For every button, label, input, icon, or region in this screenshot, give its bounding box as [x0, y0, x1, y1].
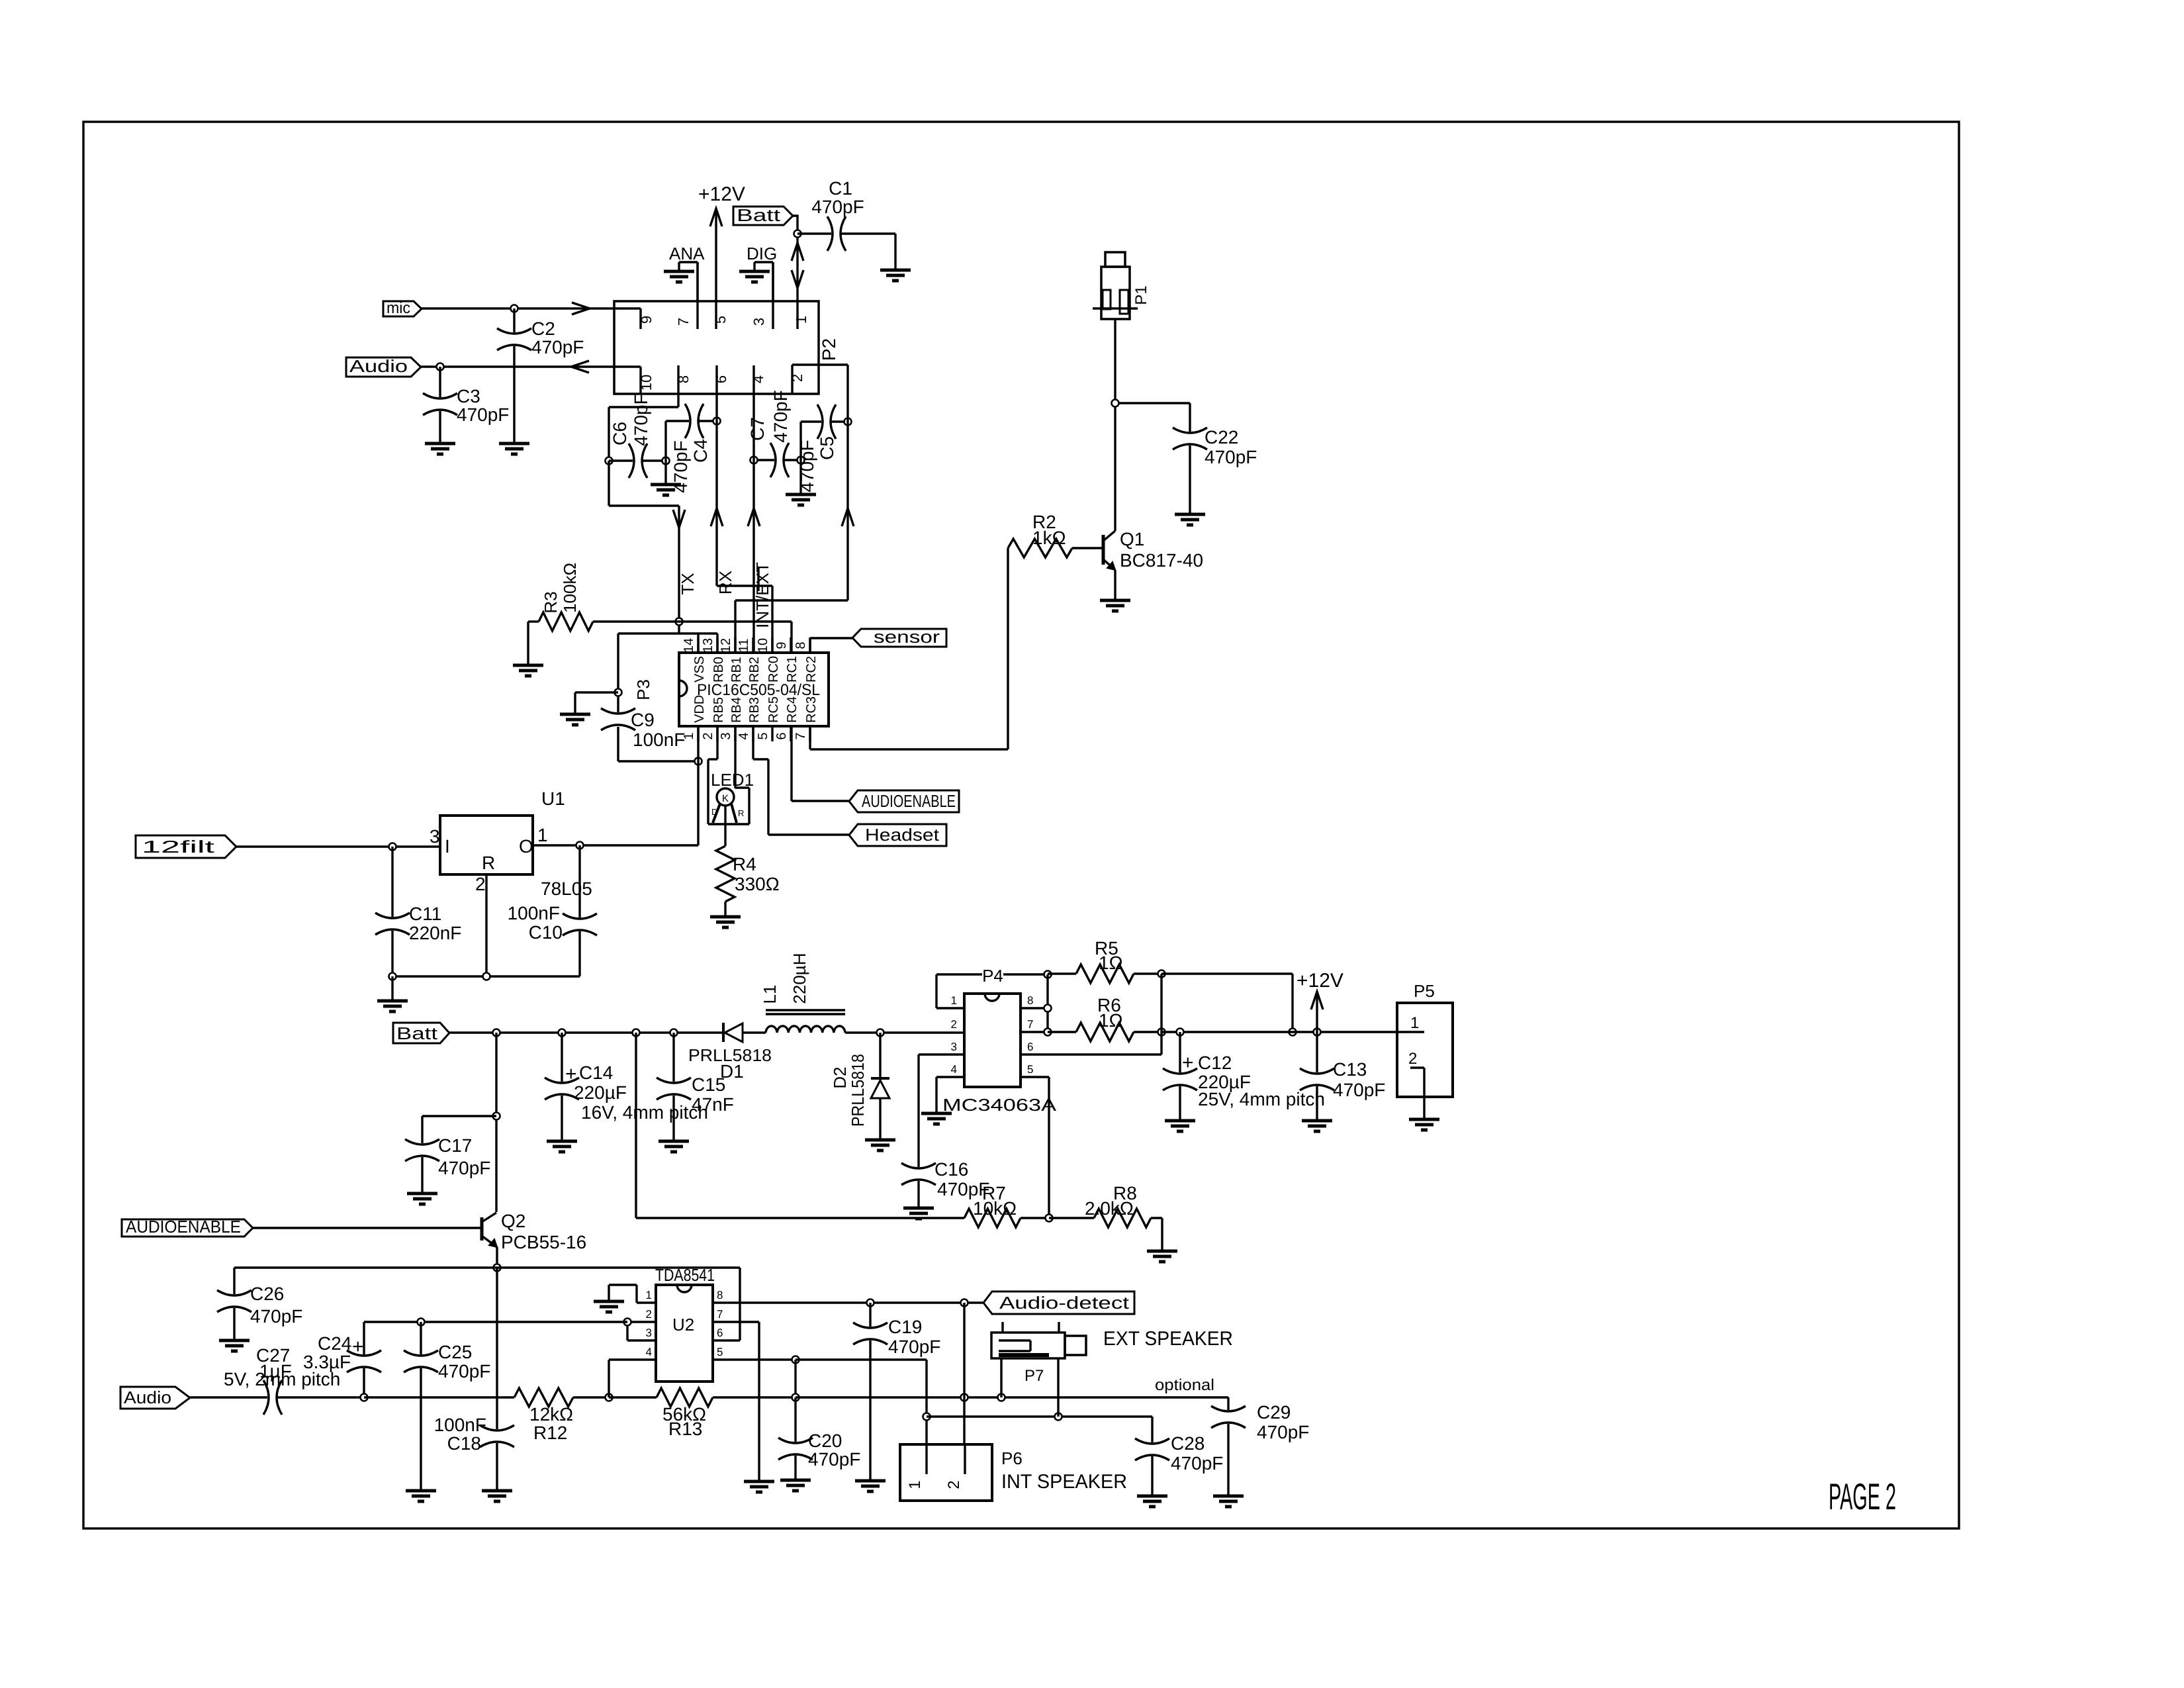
- node rail/C12 junction: [1177, 1029, 1184, 1036]
- svg-text:14: 14: [682, 638, 696, 653]
- node rail/C15 junction: [670, 1029, 678, 1037]
- svg-text:C5: C5: [817, 436, 837, 460]
- node C6/C4 junction: [662, 457, 670, 465]
- LED LED1: [708, 726, 754, 824]
- wire C11 to ground: [391, 976, 393, 1001]
- capacitor C13 470pF: [1300, 1032, 1385, 1121]
- wire U2 pins 2/3 strap: [626, 1322, 628, 1340]
- svg-text:1: 1: [1410, 1014, 1419, 1032]
- svg-text:+12V: +12V: [698, 183, 745, 205]
- node P1/C22 junction: [1112, 400, 1119, 407]
- svg-text:C22: C22: [1205, 427, 1238, 447]
- diode D1 PRLL5818: [688, 1023, 772, 1082]
- svg-text:RX: RX: [715, 571, 735, 594]
- P2 pin 2: [789, 365, 848, 394]
- wire P2 pin 8 to C6: [609, 394, 678, 461]
- page title PAGE 2: [1829, 1476, 1896, 1517]
- wire MC pin3 to C16: [917, 1055, 919, 1167]
- svg-text:3: 3: [646, 1327, 652, 1339]
- ground (C5/C7): [786, 494, 816, 505]
- wire R5 to +12V rail: [1161, 974, 1293, 1032]
- svg-text:AUDIOENABLE: AUDIOENABLE: [862, 791, 956, 811]
- wire R8 to ground: [1161, 1218, 1163, 1251]
- P2 pin 3: [751, 262, 773, 329]
- svg-text:100kΩ: 100kΩ: [560, 563, 580, 613]
- resistor R3 100kΩ: [528, 563, 593, 631]
- optional wire: [796, 1376, 1228, 1397]
- svg-text:13: 13: [701, 638, 715, 653]
- TX line to PIC pin 13: [673, 506, 698, 633]
- svg-text:3: 3: [951, 1041, 957, 1053]
- svg-text:100nF: 100nF: [633, 729, 685, 750]
- capacitor C18 100nF: [434, 1268, 514, 1491]
- svg-text:TX: TX: [678, 573, 698, 594]
- ground (C22): [1175, 514, 1205, 525]
- wire sensor to PIC pin 8: [810, 638, 852, 653]
- IC PIC16C505-04/SL: [679, 637, 829, 741]
- ground (C1): [880, 270, 911, 281]
- svg-text:C2: C2: [531, 318, 555, 339]
- svg-text:8: 8: [675, 375, 692, 383]
- ground (R4): [710, 917, 741, 927]
- capacitor C10 100nF: [508, 845, 597, 976]
- IC U1 78L05: [430, 788, 592, 899]
- svg-text:BC817-40: BC817-40: [1120, 550, 1203, 571]
- svg-text:P6: P6: [1001, 1448, 1023, 1468]
- svg-text:1: 1: [646, 1289, 652, 1301]
- node C7/INT-EXT junction: [751, 457, 758, 464]
- net label AUDIOENABLE (Q2): [122, 1217, 253, 1237]
- svg-text:470pF: 470pF: [438, 1361, 490, 1382]
- node C4/RX junction: [713, 418, 721, 425]
- node Audio/C3 junction: [437, 363, 444, 371]
- ground (C19): [855, 1481, 886, 1491]
- svg-text:RC0: RC0: [766, 656, 781, 682]
- svg-text:TDA8541: TDA8541: [655, 1265, 715, 1285]
- svg-text:1: 1: [793, 316, 809, 324]
- svg-text:470pF: 470pF: [631, 393, 651, 445]
- svg-text:RB2: RB2: [747, 657, 762, 682]
- wire AUDIOENABLE to Q2 base: [253, 1227, 482, 1229]
- svg-text:P3: P3: [633, 679, 653, 700]
- svg-text:470pF: 470pF: [250, 1306, 302, 1327]
- svg-text:RB0: RB0: [711, 657, 726, 682]
- svg-text:RC3: RC3: [804, 696, 819, 723]
- svg-text:U2: U2: [672, 1315, 694, 1335]
- svg-text:optional: optional: [1155, 1376, 1214, 1394]
- wire U1 pin 2 rail: [389, 874, 580, 980]
- svg-text:4: 4: [646, 1346, 652, 1358]
- svg-text:C10: C10: [529, 922, 563, 943]
- capacitor C20 470pF: [778, 1397, 860, 1480]
- svg-text:470pF: 470pF: [770, 390, 791, 442]
- wire pin5 to C20: [794, 1360, 796, 1397]
- node pin8 junction: [1044, 1005, 1052, 1012]
- svg-text:D2: D2: [830, 1066, 850, 1088]
- svg-text:C26: C26: [250, 1284, 284, 1304]
- svg-text:2: 2: [475, 874, 486, 894]
- connector P3: [618, 633, 717, 761]
- svg-text:INT SPEAKER: INT SPEAKER: [1001, 1471, 1127, 1493]
- svg-text:470pF: 470pF: [808, 1449, 860, 1470]
- ground (C17): [407, 1194, 437, 1204]
- digital ground DIG: [739, 244, 777, 301]
- svg-text:sensor: sensor: [874, 627, 940, 647]
- wire amp input: [364, 1321, 627, 1323]
- wire U2 pin 5 to P6 pin 1: [796, 1360, 927, 1444]
- svg-text:25V, 4mm pitch: 25V, 4mm pitch: [1198, 1089, 1325, 1109]
- svg-text:P2: P2: [819, 338, 839, 361]
- node pin7/R6 junction: [1044, 1029, 1052, 1036]
- node U2 pin2 junction: [624, 1319, 631, 1326]
- resistor R8 2.0kΩ: [1049, 1183, 1162, 1227]
- resistor R12 12kΩ: [514, 1388, 609, 1443]
- net label Headset: [849, 824, 946, 846]
- svg-text:7: 7: [1027, 1018, 1033, 1031]
- svg-text:RB4: RB4: [729, 697, 744, 723]
- wire MC pin4 to ground: [935, 1077, 937, 1113]
- svg-text:Batt: Batt: [396, 1023, 438, 1043]
- svg-text:ANA: ANA: [669, 244, 705, 263]
- connector P2: [614, 301, 839, 394]
- wire Audio to R12: [364, 1396, 514, 1398]
- svg-text:330Ω: 330Ω: [735, 874, 780, 894]
- svg-text:P7: P7: [1024, 1367, 1044, 1385]
- svg-text:5: 5: [756, 732, 770, 739]
- node C5/pin2-line junction: [844, 418, 852, 426]
- svg-text:4: 4: [951, 1063, 957, 1076]
- svg-text:I: I: [445, 836, 450, 857]
- wire MC pin5 to R7/R8: [1048, 1077, 1050, 1218]
- svg-text:12filt: 12filt: [142, 837, 216, 857]
- svg-text:mic: mic: [387, 299, 410, 317]
- node C6 left junction: [606, 457, 613, 465]
- svg-text:10kΩ: 10kΩ: [973, 1198, 1017, 1219]
- node 12filt/C11 junction: [389, 843, 396, 851]
- power label +12V (top): [698, 183, 745, 301]
- capacitor C16 470pF: [901, 1159, 989, 1208]
- capacitor C24 3.3µF: [303, 1322, 381, 1397]
- svg-text:P4: P4: [982, 966, 1003, 986]
- transistor Q1 BC817-40: [1103, 529, 1203, 600]
- node optional/P6 pin2 junction: [961, 1394, 968, 1401]
- svg-text:P1: P1: [1132, 285, 1150, 305]
- wire rail to Q2 collector: [495, 1033, 497, 1212]
- connector P1: [1093, 252, 1150, 319]
- RX line (P2 pin 6 to PIC pin 10): [711, 394, 772, 653]
- svg-text:RB5: RB5: [711, 697, 726, 723]
- P2 pin 1: [793, 234, 809, 329]
- svg-text:RB3: RB3: [747, 697, 762, 723]
- node +12V rail junction: [1289, 1029, 1297, 1036]
- ground (Q1 emitter): [1100, 600, 1130, 611]
- svg-text:1Ω: 1Ω: [1099, 1010, 1123, 1031]
- svg-text:2: 2: [951, 1018, 957, 1031]
- svg-text:3: 3: [751, 318, 767, 326]
- node Audio-detect/P6 junction: [961, 1299, 968, 1307]
- svg-text:INT/EXT: INT/EXT: [752, 562, 772, 628]
- capacitor C19 470pF: [853, 1303, 940, 1481]
- P2 pin 6: [713, 365, 729, 394]
- ground (R8): [1147, 1251, 1177, 1262]
- svg-text:7: 7: [675, 318, 692, 326]
- resistor R6 1Ω: [1048, 995, 1161, 1041]
- connector P7 (ext speaker jack): [991, 1322, 1086, 1417]
- svg-text:6: 6: [1027, 1041, 1033, 1053]
- svg-text:1kΩ: 1kΩ: [1032, 528, 1066, 548]
- ground (C25): [406, 1491, 436, 1501]
- svg-text:C29: C29: [1257, 1402, 1291, 1423]
- svg-text:RB1: RB1: [729, 657, 744, 682]
- P2 pin 2 line to PIC pin 12: [735, 365, 854, 653]
- P2 pin 7: [675, 262, 698, 329]
- capacitor C5 470pF: [797, 404, 848, 492]
- node rail/D2 junction: [877, 1029, 884, 1037]
- node mic/C2 junction: [511, 305, 518, 312]
- svg-text:3: 3: [430, 826, 440, 847]
- node R5 right junction: [1158, 970, 1165, 978]
- svg-text:100nF: 100nF: [508, 903, 560, 923]
- net label AUDIOENABLE (PIC): [849, 790, 959, 812]
- svg-text:16V, 4mm pitch: 16V, 4mm pitch: [581, 1102, 708, 1123]
- wire P3 to ground: [575, 692, 618, 714]
- svg-text:C17: C17: [438, 1135, 472, 1156]
- ground (P5): [1409, 1119, 1439, 1130]
- node P4/R5 junction: [1044, 971, 1052, 978]
- svg-text:1: 1: [906, 1480, 924, 1489]
- P2 pin 8: [675, 365, 692, 394]
- capacitor C27 1µF: [190, 1345, 364, 1415]
- svg-text:Audio: Audio: [349, 356, 408, 376]
- svg-text:C25: C25: [438, 1342, 472, 1362]
- wire P1 to Q1 collector: [1115, 319, 1190, 531]
- capacitor C17 470pF: [405, 1116, 496, 1194]
- wire C5/C7 to ground: [799, 460, 801, 494]
- svg-text:3: 3: [719, 732, 733, 739]
- INT/EXT line (P2 pin 4 to PIC pin 11): [748, 394, 772, 653]
- svg-text:2: 2: [1408, 1050, 1417, 1068]
- svg-text:C7: C7: [747, 417, 768, 441]
- capacitor C3 470pF: [423, 367, 509, 444]
- wire mic to P2 pin 9: [422, 303, 641, 329]
- svg-text:4: 4: [750, 375, 766, 383]
- wire +12V rail to P5: [1161, 1031, 1397, 1033]
- svg-text:RC5: RC5: [766, 696, 781, 723]
- node rail/Q2 junction: [493, 1029, 500, 1037]
- svg-text:PIC16C505-04/SL: PIC16C505-04/SL: [697, 681, 820, 699]
- svg-text:+: +: [1182, 1052, 1194, 1074]
- ground (D2): [865, 1140, 895, 1150]
- ground (U2 pin 1): [594, 1301, 624, 1312]
- svg-text:2: 2: [789, 374, 805, 382]
- net label sensor: [852, 627, 946, 647]
- ground (C3): [425, 444, 455, 454]
- power label +12V (right): [1297, 970, 1343, 1032]
- wire D1 to L1: [743, 1031, 766, 1033]
- wire rail to R7/R8: [635, 1033, 637, 1218]
- connector P5: [1397, 981, 1453, 1119]
- svg-text:8: 8: [794, 641, 808, 649]
- svg-text:C9: C9: [631, 710, 655, 730]
- svg-text:11: 11: [737, 639, 751, 653]
- wire U2 pin 7 to ground: [758, 1322, 760, 1481]
- svg-text:470pF: 470pF: [1171, 1453, 1223, 1474]
- resistor R7 10kΩ: [636, 1183, 1049, 1227]
- svg-text:R13: R13: [668, 1419, 702, 1439]
- svg-text:R3: R3: [541, 591, 561, 613]
- svg-text:12kΩ: 12kΩ: [529, 1404, 573, 1425]
- svg-text:C20: C20: [808, 1430, 842, 1451]
- ground (C13): [1302, 1121, 1332, 1131]
- IC MC34063A (U?): [919, 994, 1161, 1115]
- wire R3 to PIC pin 9: [593, 622, 792, 653]
- IC U2 TDA8541: [609, 1265, 796, 1382]
- svg-text:C4: C4: [690, 439, 711, 463]
- node P3/ground junction: [615, 689, 622, 696]
- svg-text:10: 10: [638, 375, 655, 391]
- svg-text:5: 5: [712, 316, 729, 324]
- node optional/P7 junction: [998, 1394, 1005, 1401]
- svg-text:2: 2: [646, 1308, 652, 1321]
- ground (U1 block): [377, 1001, 408, 1011]
- P2 pin 9: [638, 316, 655, 324]
- net label Audio-detect: [983, 1291, 1134, 1314]
- wire VDD (PIC pin 1 to U1 out): [580, 726, 698, 845]
- wire Audio to P2 pin 10: [421, 361, 641, 394]
- svg-text:RC4: RC4: [785, 696, 799, 723]
- wire C6 to TX line: [609, 461, 679, 506]
- capacitor C25 470pF: [404, 1322, 490, 1491]
- net label 12filt: [136, 835, 236, 858]
- resistor R13 56kΩ: [609, 1388, 796, 1439]
- ground (C14): [547, 1141, 577, 1152]
- svg-text:1: 1: [951, 994, 957, 1007]
- svg-text:Batt: Batt: [737, 205, 781, 225]
- svg-text:C1: C1: [829, 178, 852, 199]
- capacitor C4 470pF: [666, 404, 717, 493]
- ground (U2 pin 7): [744, 1481, 774, 1492]
- svg-text:R12: R12: [533, 1423, 567, 1443]
- ground (C16): [903, 1208, 934, 1219]
- net label Batt (top): [733, 205, 797, 234]
- svg-text:5: 5: [1027, 1063, 1033, 1076]
- svg-text:O: O: [519, 836, 533, 857]
- wire MC pin8 strap: [1046, 974, 1048, 1032]
- inductor L1 220µH: [760, 953, 845, 1033]
- capacitor C1 470pF: [797, 178, 895, 251]
- wire to C28: [927, 1415, 1152, 1417]
- wire R5/R6 parallel strap: [1160, 974, 1162, 1055]
- svg-text:AUDIOENABLE: AUDIOENABLE: [126, 1217, 241, 1237]
- svg-text:Audio: Audio: [124, 1387, 171, 1407]
- wire Audio-detect: [740, 1301, 983, 1303]
- P2 pin 5: [712, 301, 729, 329]
- node R12/R13/pin4 junction: [606, 1394, 613, 1401]
- ground (R3): [513, 665, 543, 676]
- svg-text:4: 4: [737, 732, 751, 739]
- capacitor C12 220µF: [1163, 1032, 1325, 1121]
- svg-text:C3: C3: [457, 386, 480, 406]
- wire C4/C6 to ground: [664, 461, 666, 485]
- capacitor C2 470pF: [497, 308, 584, 444]
- svg-text:8: 8: [717, 1289, 723, 1301]
- node R6 right junction: [1158, 1029, 1165, 1036]
- resistor R4 330Ω: [716, 805, 780, 917]
- transistor Q2 PCB55-16: [482, 1211, 586, 1268]
- svg-text:220µF: 220µF: [574, 1082, 627, 1103]
- resistor R2 1kΩ: [1008, 512, 1103, 557]
- svg-text:1: 1: [537, 825, 548, 845]
- net label mic: [383, 299, 422, 317]
- svg-text:6: 6: [774, 732, 789, 739]
- capacitor C6 470pF: [609, 393, 666, 478]
- svg-text:R: R: [738, 808, 744, 818]
- svg-text:Q2: Q2: [501, 1211, 525, 1231]
- capacitor C28 470pF: [1135, 1417, 1223, 1496]
- svg-text:10: 10: [756, 638, 770, 653]
- node P3/PIC pin1 junction: [695, 758, 702, 765]
- wire PIC pin 6 to AUDIOENABLE: [792, 726, 849, 801]
- capacitor C26 470pF: [217, 1268, 302, 1340]
- node R13/C20 junction: [792, 1394, 799, 1401]
- svg-text:9: 9: [638, 316, 655, 324]
- svg-text:7: 7: [794, 732, 808, 739]
- svg-text:C11: C11: [409, 904, 441, 924]
- svg-text:DIG: DIG: [747, 244, 777, 263]
- svg-text:C12: C12: [1198, 1053, 1232, 1073]
- svg-text:R4: R4: [733, 854, 756, 874]
- P2 pin 4: [750, 365, 766, 394]
- svg-text:470pF: 470pF: [888, 1336, 940, 1357]
- svg-text:PAGE 2: PAGE 2: [1829, 1476, 1896, 1517]
- ground (C15): [659, 1141, 689, 1152]
- svg-text:C24: C24: [318, 1333, 351, 1354]
- capacitor C11 220nF: [375, 847, 461, 976]
- svg-text:Headset: Headset: [865, 825, 940, 845]
- svg-text:PRLL5818: PRLL5818: [848, 1054, 868, 1127]
- svg-text:470pF: 470pF: [1257, 1422, 1309, 1442]
- svg-text:C18: C18: [447, 1433, 481, 1454]
- svg-text:L1: L1: [760, 985, 780, 1004]
- svg-text:220nF: 220nF: [409, 923, 461, 943]
- ground (C29): [1213, 1496, 1244, 1507]
- svg-text:C19: C19: [888, 1317, 922, 1337]
- node R7/R8 junction: [1046, 1215, 1053, 1222]
- ground (C26): [219, 1340, 250, 1351]
- P2 pin 10: [638, 375, 655, 391]
- wire C1 to ground: [894, 234, 896, 270]
- svg-text:5: 5: [717, 1346, 723, 1358]
- svg-text:C28: C28: [1171, 1433, 1205, 1454]
- label EXT SPEAKER: [1103, 1328, 1233, 1350]
- svg-text:2.0kΩ: 2.0kΩ: [1085, 1198, 1134, 1219]
- svg-text:470pF: 470pF: [438, 1158, 490, 1178]
- svg-text:VDD: VDD: [692, 695, 707, 723]
- svg-text:6: 6: [717, 1327, 723, 1339]
- ground (C20): [780, 1480, 811, 1491]
- svg-text:C16: C16: [934, 1159, 968, 1180]
- bidirectional arrows (P2 pin 1): [792, 243, 803, 288]
- svg-text:R: R: [482, 853, 495, 873]
- svg-text:12: 12: [719, 638, 733, 653]
- wire 12filt to U1 in: [236, 845, 440, 847]
- svg-text:1Ω: 1Ω: [1099, 953, 1123, 973]
- analog ground ANA: [664, 244, 705, 301]
- ground (P3): [560, 714, 590, 725]
- node P6 pin1/C28 junction: [923, 1413, 931, 1421]
- svg-text:6: 6: [713, 375, 729, 383]
- svg-text:9: 9: [774, 641, 789, 649]
